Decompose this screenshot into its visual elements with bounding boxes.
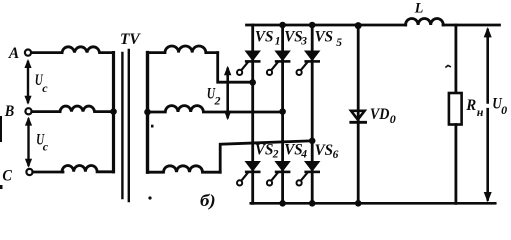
transformer core bars <box>121 53 123 198</box>
thyristor VS3 <box>267 51 289 75</box>
speck near figure label <box>148 196 151 199</box>
top DC bus <box>247 24 500 27</box>
thyristor VS1 <box>237 51 259 75</box>
wire load branch top <box>454 25 457 93</box>
svg-text:3: 3 <box>300 36 307 48</box>
svg-text:L: L <box>414 0 424 16</box>
svg-text:0: 0 <box>390 112 396 126</box>
svg-text:1: 1 <box>275 36 281 48</box>
diode VD0 <box>351 111 366 123</box>
speck near secondary bus <box>151 125 154 128</box>
svg-text:VS: VS <box>315 29 334 46</box>
svg-text:2: 2 <box>272 149 279 161</box>
thyristor VS6 <box>297 162 319 186</box>
svg-text:0: 0 <box>501 103 507 117</box>
load resistor RH <box>449 93 462 125</box>
bridge leg 3 wire <box>311 25 314 203</box>
wire secondary c to bridge <box>220 141 312 172</box>
bottom DC bus <box>251 202 495 205</box>
secondary winding b <box>148 106 283 112</box>
terminal A <box>25 50 31 56</box>
terminal B <box>25 108 31 114</box>
svg-text:B: B <box>4 103 15 120</box>
voltage arrow Uc (B-C) <box>27 120 29 166</box>
speck near load branch <box>446 65 450 67</box>
voltage arrow U2 <box>226 69 229 117</box>
junction bottom bus leg3 <box>309 200 316 207</box>
svg-text:TV: TV <box>120 31 141 48</box>
primary winding C <box>62 166 114 172</box>
svg-text:VS: VS <box>284 29 303 46</box>
svg-text:VS: VS <box>255 29 274 46</box>
scan streak left edge <box>0 116 2 142</box>
svg-text:R: R <box>465 97 476 114</box>
voltage arrow U0 <box>486 30 489 200</box>
junction primary star point <box>110 108 117 115</box>
secondary winding a <box>148 46 218 53</box>
bridge leg 2 wire <box>281 25 284 203</box>
thyristor VS4 <box>267 162 289 186</box>
svg-text:VS: VS <box>255 142 274 159</box>
junction phase c leg3 <box>309 138 316 145</box>
wire phase A to winding <box>31 51 62 54</box>
thyristor VS5 <box>297 51 319 75</box>
svg-text:6: 6 <box>333 149 339 161</box>
junction top bus leg3 <box>309 22 316 29</box>
junction phase b leg2 <box>279 108 286 115</box>
svg-text:н: н <box>477 105 484 119</box>
wire phase B to winding <box>32 110 60 113</box>
svg-text:c: c <box>42 81 48 95</box>
junction top bus leg2 <box>279 22 286 29</box>
svg-text:2: 2 <box>214 94 221 108</box>
freewheeling diode VD0 wire <box>357 25 360 203</box>
junction top bus VD0 <box>355 22 362 29</box>
svg-text:C: C <box>2 168 12 185</box>
svg-text:c: c <box>43 140 49 154</box>
primary winding A <box>62 47 114 53</box>
primary winding B <box>60 106 114 112</box>
svg-text:A: A <box>8 45 20 62</box>
secondary star bus <box>146 53 149 173</box>
voltage arrow Uc (A-B) <box>27 62 29 102</box>
svg-text:VD: VD <box>370 106 390 123</box>
smoothing inductor L <box>406 18 444 25</box>
wire phase C to winding <box>33 171 63 174</box>
junction phase a leg1 <box>249 79 256 86</box>
junction bottom bus leg2 <box>279 200 286 207</box>
svg-text:б): б) <box>200 191 216 210</box>
junction secondary star point <box>144 109 151 116</box>
primary star bus <box>112 53 115 172</box>
wire secondary a to bridge <box>218 53 253 83</box>
secondary winding c <box>148 166 221 172</box>
junction bottom bus VD0 <box>355 200 362 207</box>
svg-text:VS: VS <box>284 142 303 159</box>
bridge leg 1 wire <box>251 25 254 203</box>
svg-text:5: 5 <box>336 37 342 49</box>
svg-text:4: 4 <box>300 149 307 161</box>
wire load branch bottom <box>454 125 457 204</box>
terminal C <box>26 169 32 175</box>
svg-text:VS: VS <box>315 142 334 159</box>
thyristor VS2 <box>237 162 259 186</box>
